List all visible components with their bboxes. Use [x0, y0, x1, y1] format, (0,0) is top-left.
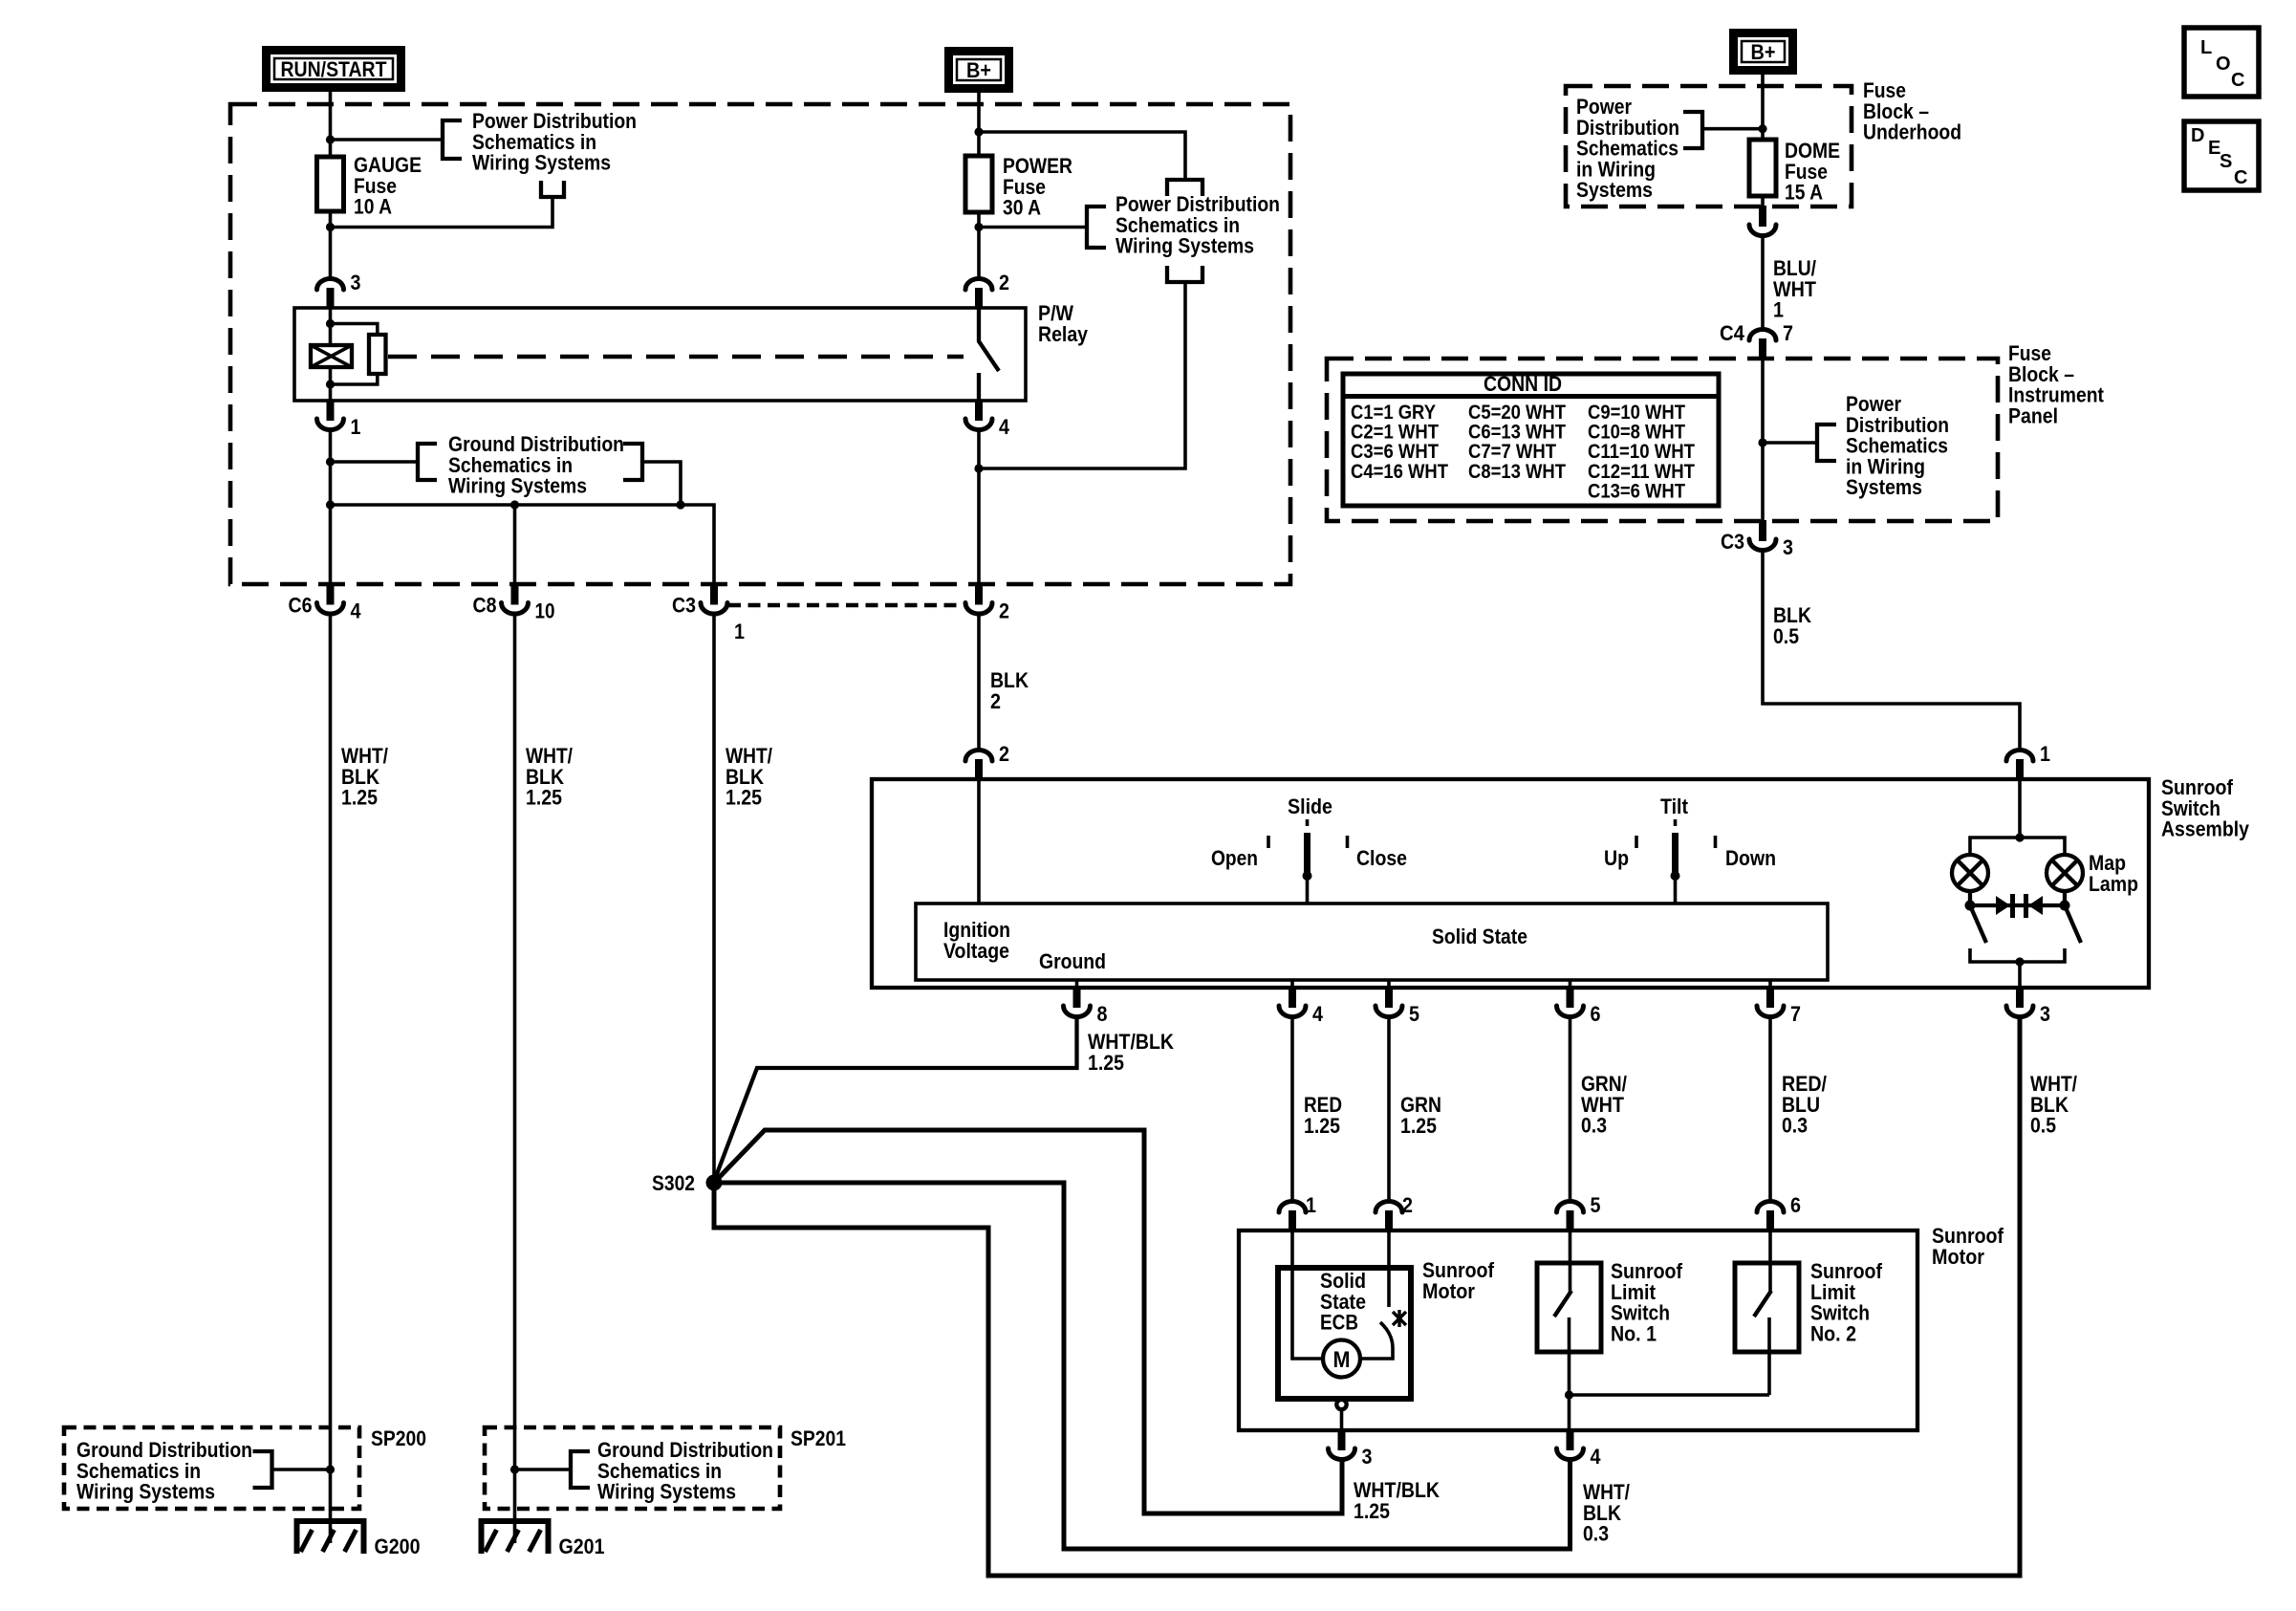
svg-text:C5=20 WHT: C5=20 WHT	[1468, 402, 1566, 424]
connector motor pin 4	[1567, 1429, 1574, 1450]
sunroof motor box	[1239, 1230, 1917, 1430]
node junction above DOME fuse	[1758, 124, 1766, 133]
node junction to power dist bracket	[1758, 438, 1766, 446]
wire pin6 down to motor pin 5	[1569, 1017, 1572, 1201]
svg-text:Solid State: Solid State	[1432, 925, 1527, 948]
connector below underhood box	[1759, 206, 1766, 227]
svg-text:6: 6	[1591, 1002, 1601, 1026]
connector motor pin 3	[1338, 1429, 1346, 1450]
connector C4 pin 7	[1759, 338, 1766, 359]
svg-text:No. 1: No. 1	[1611, 1321, 1657, 1345]
svg-text:C1=1 GRY: C1=1 GRY	[1351, 402, 1436, 424]
reference bracket above text (power dist 2)	[1167, 180, 1202, 196]
power flag B+ right	[1729, 29, 1797, 75]
wire coil bottom	[329, 367, 333, 401]
wire limit switches common	[1570, 1393, 1770, 1397]
svg-text:15 A: 15 A	[1785, 181, 1823, 205]
reference bracket ground distribution left	[418, 444, 437, 480]
wire RUN/START to GAUGE fuse	[329, 92, 333, 157]
connector pin 4 slide open	[1290, 980, 1294, 988]
fuse block underhood dashed box	[1566, 86, 1852, 207]
svg-text:Ground: Ground	[1039, 949, 1106, 973]
svg-text:1.25: 1.25	[1400, 1114, 1437, 1138]
fuse DOME 15A	[1749, 140, 1776, 196]
P/W relay box	[294, 308, 1026, 401]
reference bracket left of text (power dist 2)	[1087, 207, 1106, 248]
wire C6 down to SP200	[329, 615, 333, 1522]
wire pin5 down to motor pin 2	[1387, 1017, 1391, 1201]
svg-text:CONN ID: CONN ID	[1484, 372, 1562, 396]
lamp right	[2047, 855, 2083, 891]
solid state box	[916, 903, 1828, 980]
connector pin 7 tilt down	[1768, 980, 1772, 988]
resistor parallel with coil	[331, 324, 378, 336]
svg-text:C2=1 WHT: C2=1 WHT	[1351, 422, 1439, 444]
connector pin 8 ground	[1075, 980, 1079, 988]
wire motor pin 2 to ECB switch	[1387, 1230, 1391, 1307]
wire C8 down to SP201	[513, 615, 517, 1522]
svg-text:4: 4	[1312, 1002, 1324, 1026]
reference bracket below text 1	[541, 181, 564, 197]
svg-text:Wiring Systems: Wiring Systems	[1116, 234, 1254, 258]
svg-text:C10=8 WHT: C10=8 WHT	[1588, 422, 1685, 444]
dashed mechanical linkage of relay	[388, 355, 964, 359]
connector C3 pin 1	[710, 584, 718, 605]
node bus junction at relay column	[326, 500, 335, 509]
tilt switch lever	[1674, 819, 1678, 826]
node junction to ground ref	[326, 457, 335, 466]
wire S302 to motor pin 3 (WHT/BLK 1.25)	[714, 1130, 1342, 1513]
svg-text:2: 2	[1402, 1193, 1413, 1217]
svg-text:ECB: ECB	[1320, 1311, 1358, 1335]
node junction below POWER fuse	[974, 223, 983, 231]
svg-text:Relay: Relay	[1038, 322, 1089, 346]
diode right	[2028, 896, 2043, 915]
svg-text:1: 1	[1773, 298, 1784, 322]
wire pin1 to lamp bus	[2018, 779, 2022, 838]
ECB star contact	[1393, 1310, 1406, 1327]
svg-text:C: C	[2231, 70, 2244, 91]
connector motor pin 5	[1567, 1210, 1574, 1231]
svg-text:4: 4	[351, 599, 362, 623]
svg-text:2: 2	[999, 742, 1009, 766]
svg-text:No. 2: No. 2	[1810, 1321, 1856, 1345]
wire right bracket down to bus	[642, 462, 681, 505]
svg-text:Lamp: Lamp	[2089, 872, 2138, 896]
svg-text:C3=6 WHT: C3=6 WHT	[1351, 441, 1439, 463]
svg-text:S: S	[2220, 151, 2232, 172]
wire down to sunroof switch assembly pin 2	[977, 615, 981, 751]
svg-text:1: 1	[351, 415, 361, 439]
wire S302 to map lamp pin 3 (WHT/BLK 0.5)	[714, 1017, 2020, 1576]
svg-text:2: 2	[999, 599, 1009, 623]
connector C8 pin 10	[511, 584, 519, 605]
svg-text:7: 7	[1790, 1002, 1801, 1026]
svg-text:0.3: 0.3	[1782, 1114, 1808, 1138]
node junction above POWER fuse	[974, 127, 983, 136]
label Down with tick	[1714, 836, 1718, 848]
wire down to C4	[1761, 237, 1765, 329]
wire junction to bracket	[1763, 441, 1817, 445]
wire SP201 junction to bracket	[515, 1468, 572, 1471]
connector pin 2 fuse block bottom	[975, 584, 983, 605]
wire POWER fuse to left bracket	[979, 226, 1087, 229]
svg-text:SP200: SP200	[371, 1426, 426, 1450]
svg-text:0.3: 0.3	[1583, 1522, 1609, 1546]
svg-text:Down: Down	[1725, 846, 1776, 870]
wire lamp bottom to pin 3	[2018, 962, 2022, 988]
reference bracket ground distribution SP200	[253, 1451, 272, 1488]
wire C3 down to sunroof assembly pin 1	[1763, 551, 2020, 750]
svg-text:Wiring Systems: Wiring Systems	[76, 1480, 215, 1504]
sunroof limit switch no 2 box	[1735, 1263, 1799, 1352]
svg-text:10: 10	[535, 599, 555, 623]
wire POWER fuse down to relay pin 2	[977, 212, 981, 278]
sunroof switch assembly box	[872, 779, 2149, 988]
connector pin 3 of P/W relay	[327, 288, 335, 309]
svg-text:10 A: 10 A	[354, 195, 392, 219]
svg-text:0.5: 0.5	[1773, 624, 1799, 648]
wire junction to reference bracket	[331, 138, 444, 142]
wire ignition voltage into solid state	[977, 779, 981, 903]
node bus junction from ref bracket	[676, 500, 684, 509]
node limit switch junction	[1565, 1390, 1573, 1399]
svg-text:3: 3	[1783, 535, 1793, 559]
slide switch lever	[1306, 819, 1310, 826]
svg-text:C12=11 WHT: C12=11 WHT	[1588, 461, 1695, 483]
connector pin 3 map lamp	[2016, 987, 2024, 1008]
wire to ground distribution bracket	[331, 460, 419, 464]
svg-text:S302: S302	[652, 1171, 695, 1195]
wire pin4 down to motor pin 1	[1290, 1017, 1294, 1201]
connector pin 2 sunroof switch assembly	[975, 759, 983, 780]
svg-text:5: 5	[1409, 1002, 1419, 1026]
wire C8 branch down	[513, 505, 517, 585]
connector pin 6 tilt up	[1569, 980, 1572, 988]
svg-text:C11=10 WHT: C11=10 WHT	[1588, 441, 1695, 463]
svg-text:D: D	[2191, 125, 2204, 146]
svg-text:Open: Open	[1211, 846, 1258, 870]
node SP200 junction	[326, 1465, 335, 1473]
svg-text:C6=13 WHT: C6=13 WHT	[1468, 422, 1566, 444]
label Close with tick	[1346, 836, 1350, 848]
svg-text:2: 2	[990, 689, 1001, 713]
wire B+ down to POWER fuse	[977, 93, 981, 156]
svg-text:Systems: Systems	[1846, 475, 1922, 499]
power flag RUN/START	[262, 46, 405, 92]
svg-text:7: 7	[1783, 321, 1793, 345]
lamp bottom bracket	[1970, 948, 2065, 962]
wire junction to bracket	[1702, 127, 1763, 131]
svg-text:C3: C3	[1721, 530, 1744, 554]
svg-text:L: L	[2200, 37, 2212, 58]
ground G200	[297, 1521, 364, 1554]
svg-text:Panel: Panel	[2008, 403, 2058, 427]
svg-text:Tilt: Tilt	[1660, 795, 1689, 818]
splice SP201 dashed box	[485, 1427, 780, 1509]
wire GAUGE fuse to bottom reference bracket	[331, 197, 553, 228]
svg-text:3: 3	[2040, 1002, 2050, 1026]
lamp left	[1952, 855, 1988, 891]
solid state ECB box	[1278, 1268, 1411, 1399]
fuse GAUGE 10A	[317, 157, 344, 211]
LOC box	[2184, 28, 2259, 97]
svg-text:M: M	[1333, 1347, 1351, 1373]
svg-text:SP201: SP201	[791, 1426, 846, 1450]
ground G201	[482, 1521, 549, 1554]
svg-text:RUN/START: RUN/START	[281, 57, 387, 81]
ground bus wire	[331, 505, 715, 585]
svg-text:8: 8	[1097, 1002, 1108, 1026]
svg-text:5: 5	[1591, 1193, 1601, 1217]
svg-text:Wiring Systems: Wiring Systems	[448, 474, 587, 498]
wire GAUGE fuse down to relay pin 3	[329, 211, 333, 278]
svg-text:C8=13 WHT: C8=13 WHT	[1468, 461, 1566, 483]
relay switch contact	[979, 308, 999, 371]
connector motor pin 2	[1385, 1210, 1393, 1231]
ECB output bubble	[1336, 1400, 1346, 1409]
connector pin 2 of P/W relay	[975, 288, 983, 309]
connector pin 5 slide close	[1387, 980, 1391, 988]
svg-text:Wiring Systems: Wiring Systems	[597, 1480, 736, 1504]
svg-text:C6: C6	[289, 594, 313, 618]
wire junction to motor pin 4	[1568, 1395, 1571, 1430]
svg-text:1: 1	[1306, 1193, 1316, 1217]
limit switch 1 contacts	[1569, 1230, 1572, 1292]
svg-text:1.25: 1.25	[726, 786, 762, 810]
wire C3 pin1 down to S302	[712, 615, 716, 1184]
svg-text:1.25: 1.25	[341, 786, 378, 810]
lamp bus	[1970, 838, 2065, 855]
svg-text:C8: C8	[473, 594, 497, 618]
reference bracket ground distribution right	[623, 444, 642, 480]
svg-text:O: O	[2216, 54, 2231, 75]
svg-text:C4=16 WHT: C4=16 WHT	[1351, 461, 1448, 483]
node coil bottom junction	[326, 380, 335, 388]
svg-text:1: 1	[734, 620, 745, 643]
svg-text:Systems: Systems	[1576, 178, 1653, 202]
DESC box	[2184, 121, 2259, 190]
svg-text:G201: G201	[559, 1535, 605, 1558]
wire B+ down through DOME fuse	[1761, 75, 1765, 140]
svg-text:C7=7 WHT: C7=7 WHT	[1468, 441, 1556, 463]
svg-text:Wiring Systems: Wiring Systems	[472, 151, 611, 175]
CONN ID table separator	[1343, 394, 1719, 399]
wire relay pin 1 down	[327, 400, 335, 421]
wire relay pin3 to coil	[329, 308, 333, 345]
svg-text:1: 1	[2040, 742, 2050, 766]
connector motor pin 1	[1289, 1210, 1296, 1231]
power flag B+ center	[944, 47, 1013, 93]
svg-text:Underhood: Underhood	[1863, 120, 1961, 144]
connector C6 pin 4	[327, 584, 335, 605]
wire S302 to motor pin 4 (WHT/BLK 0.3)	[714, 1183, 1570, 1549]
diode row wire	[1970, 891, 2065, 905]
reference bracket power distribution underhood	[1683, 112, 1702, 148]
node SP201 junction	[510, 1465, 519, 1473]
svg-text:Motor: Motor	[1932, 1245, 1984, 1269]
connector C3 pin 3	[1759, 520, 1766, 541]
svg-text:C9=10 WHT: C9=10 WHT	[1588, 402, 1685, 424]
svg-text:Voltage: Voltage	[943, 939, 1009, 963]
wire motor pin 1 into ECB to motor M	[1292, 1230, 1323, 1359]
svg-text:C: C	[2234, 167, 2247, 188]
svg-text:Assembly: Assembly	[2161, 817, 2250, 841]
wire SP200 junction to bracket	[272, 1468, 331, 1471]
reference bracket ground distribution SP201	[571, 1451, 590, 1488]
fuse POWER 30A	[965, 156, 992, 212]
svg-text:30 A: 30 A	[1003, 196, 1041, 220]
svg-text:Slide: Slide	[1288, 795, 1332, 818]
reference bracket below text (power dist 2)	[1167, 266, 1202, 282]
connector pin 1 sunroof switch assembly	[2016, 759, 2024, 780]
svg-text:1.25: 1.25	[526, 786, 562, 810]
svg-text:Close: Close	[1356, 846, 1407, 870]
fuse block instrument panel dashed box	[230, 104, 1290, 584]
node lamp bus junction	[2015, 833, 2024, 841]
wire DOME fuse to connector	[1761, 196, 1765, 207]
svg-text:G200: G200	[375, 1535, 421, 1558]
svg-text:B+: B+	[1751, 40, 1776, 64]
connector pin 4 of P/W relay	[975, 400, 983, 421]
node lamp bottom junction	[2015, 957, 2024, 966]
svg-text:Up: Up	[1604, 846, 1629, 870]
svg-text:B+: B+	[966, 58, 991, 82]
svg-text:0.3: 0.3	[1581, 1114, 1607, 1138]
svg-text:2: 2	[999, 271, 1009, 294]
svg-text:6: 6	[1790, 1193, 1801, 1217]
splice S302	[706, 1175, 723, 1191]
lamp switch blade right	[2065, 905, 2081, 943]
sunroof limit switch no 1 box	[1537, 1263, 1601, 1352]
connector motor pin 6	[1766, 1210, 1774, 1231]
svg-text:1.25: 1.25	[1354, 1499, 1390, 1523]
svg-text:3: 3	[351, 271, 361, 294]
svg-text:Motor: Motor	[1422, 1279, 1475, 1303]
node junction above GAUGE fuse	[326, 135, 335, 143]
node junction below GAUGE fuse	[326, 223, 335, 231]
wire relay pin 4 to power dist loop	[977, 430, 981, 585]
lamp switch blade left	[1970, 905, 1986, 943]
svg-text:0.5: 0.5	[2030, 1114, 2056, 1138]
node coil top junction	[326, 319, 335, 328]
fuse block instrument panel dashed box 2	[1327, 359, 1998, 521]
fine dashed connector link C3 to pin2	[728, 603, 964, 608]
diode left	[1996, 896, 2010, 915]
motor M circle	[1323, 1340, 1360, 1378]
reference bracket power distribution (left)	[443, 120, 462, 159]
wire junction to top bracket	[979, 132, 1185, 180]
CONN ID table box	[1343, 374, 1719, 506]
wire pin7 down to motor pin 6	[1768, 1017, 1772, 1201]
svg-text:C13=6 WHT: C13=6 WHT	[1588, 480, 1685, 502]
svg-text:4: 4	[1591, 1445, 1602, 1469]
svg-text:3: 3	[1362, 1445, 1373, 1469]
ECB switch blade	[1360, 1322, 1393, 1359]
svg-text:1.25: 1.25	[1304, 1114, 1340, 1138]
svg-text:C4: C4	[1720, 321, 1745, 345]
limit switch 2 contacts	[1768, 1230, 1772, 1292]
svg-text:4: 4	[999, 415, 1010, 439]
svg-text:1.25: 1.25	[1088, 1051, 1124, 1075]
wire C4 to C3 inside box	[1761, 359, 1765, 521]
relay coil K1	[311, 345, 352, 367]
wire pin 8 to S302	[715, 1017, 1077, 1179]
node bus junction C8 branch	[510, 500, 519, 509]
reference bracket power distribution ip	[1817, 425, 1836, 461]
splice SP200 dashed box	[64, 1427, 359, 1509]
wire bubble to motor box edge	[1340, 1409, 1344, 1430]
svg-text:C3: C3	[672, 594, 696, 618]
